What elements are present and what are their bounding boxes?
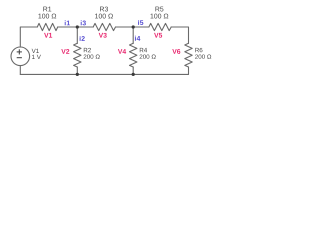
- wire: [116, 26, 149, 28]
- current label i3: [81, 20, 86, 25]
- current label i4: [135, 36, 140, 41]
- wire: [58, 26, 93, 28]
- label R4: [140, 48, 147, 52]
- net label V5: [154, 33, 162, 38]
- node junction bottom-left: [76, 73, 79, 76]
- value label 100 Ohm R5: [151, 14, 169, 19]
- net label V4: [118, 49, 126, 54]
- value label 100 Ohm R1: [38, 14, 56, 19]
- node junction top-left: [76, 25, 79, 28]
- voltage source V1 plus sign: [17, 49, 22, 57]
- node junction bottom-right: [132, 73, 135, 76]
- wire: [76, 27, 78, 43]
- net label V2: [61, 49, 69, 54]
- wire: [19, 66, 21, 75]
- wire: [132, 27, 134, 43]
- wire: [20, 73, 188, 75]
- current label i2: [80, 36, 85, 41]
- net label V1: [44, 33, 52, 38]
- value label 100 Ohm R3: [95, 14, 113, 19]
- net label V3: [99, 33, 107, 38]
- current label i1: [65, 20, 70, 25]
- value label 200 Ohm R2: [84, 54, 100, 58]
- resistor R4: [130, 43, 137, 67]
- label R3: [100, 7, 108, 12]
- voltage source V1 minus sign: [17, 57, 22, 59]
- wire: [171, 27, 188, 43]
- resistor R2: [74, 43, 81, 67]
- label V1 source name: [32, 49, 39, 53]
- current label i5: [138, 20, 143, 25]
- wire: [188, 67, 190, 74]
- wire: [132, 67, 134, 74]
- resistor R6: [185, 43, 192, 67]
- wire: [20, 27, 37, 47]
- wire: [76, 67, 78, 74]
- resistor R5: [149, 23, 171, 30]
- label R2: [84, 48, 91, 52]
- label R6: [195, 48, 202, 52]
- label R5: [155, 7, 163, 12]
- label R1: [43, 7, 51, 12]
- node junction top-right: [132, 25, 135, 28]
- value label 1 V: [32, 55, 41, 59]
- value label 200 Ohm R4: [140, 54, 156, 58]
- resistor R3: [93, 23, 115, 30]
- voltage source V1: [11, 47, 30, 66]
- resistor R1: [37, 23, 57, 30]
- net label V6: [172, 49, 180, 54]
- value label 200 Ohm R6: [195, 54, 211, 58]
